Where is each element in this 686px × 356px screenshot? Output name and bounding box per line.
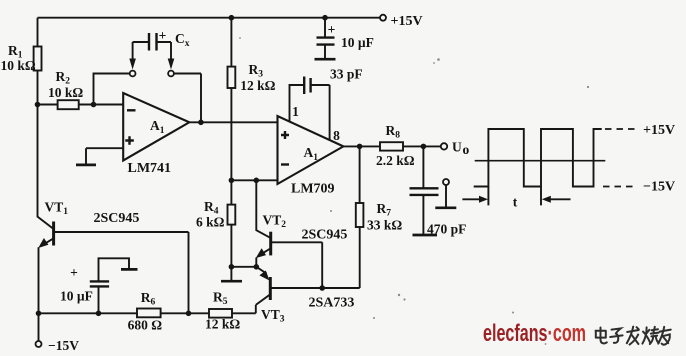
svg-text:10 µF: 10 µF (60, 289, 93, 304)
node B (inverting input junction) (91, 102, 97, 108)
wire inverting input op-amp U1 (94, 104, 124, 106)
svg-text:+: + (159, 28, 167, 43)
waveform level labels (643, 123, 675, 195)
svg-text:10 µF: 10 µF (341, 35, 374, 50)
wire +15V top rail (38, 17, 381, 19)
svg-text:+15V: +15V (643, 123, 675, 138)
svg-text:U: U (452, 140, 462, 155)
resistor R8 (376, 123, 441, 168)
char fa (627, 327, 639, 345)
svg-text:33 pF: 33 pF (330, 67, 363, 82)
svg-text:680 Ω: 680 Ω (128, 318, 163, 333)
capacitor C4 10uF (60, 258, 129, 313)
node A (R1/R2 junction) (35, 102, 41, 108)
char you (658, 327, 671, 345)
svg-text:o: o (463, 142, 470, 157)
terminal -15V (36, 338, 80, 353)
node F (-15V rail junction) (36, 311, 42, 317)
wire bottom rail left (39, 311, 138, 317)
svg-text:8: 8 (333, 128, 340, 143)
svg-text:6 kΩ: 6 kΩ (196, 215, 225, 230)
waveform axis (475, 160, 606, 162)
svg-text:+: + (328, 22, 336, 37)
char shao (642, 327, 659, 344)
capacitor C2 33pF (290, 67, 363, 141)
transistor Q2 VT2 2SC945 (256, 180, 348, 266)
svg-text:1: 1 (292, 104, 299, 119)
capacitor C3 470pF (410, 146, 467, 236)
wire op-amp U2 output node (343, 144, 380, 150)
transistor Q3 VT3 2SA733 (256, 267, 355, 325)
svg-text:12 kΩ: 12 kΩ (205, 317, 240, 332)
wire Cx right socket to output (174, 74, 201, 123)
node E (output / 470pF tap) (421, 144, 427, 150)
terminal Uo (441, 140, 470, 158)
ground (op-amp U1 + input) (76, 164, 96, 167)
wire lower input op-amp U2 (229, 178, 278, 184)
svg-text:2.2 kΩ: 2.2 kΩ (376, 153, 415, 168)
svg-text:33 kΩ: 33 kΩ (367, 218, 402, 233)
waveform dimension arrows t (462, 195, 570, 210)
waveform square-wave trace (474, 129, 602, 187)
svg-text:2SA733: 2SA733 (309, 296, 355, 311)
wire R4 node to emitter node (231, 266, 256, 268)
op-amp U2 LM709 (278, 104, 344, 197)
resistor R2 (38, 69, 124, 109)
ground (10uF tap) (121, 268, 138, 271)
resistor R7 (356, 146, 403, 232)
wire VT1 base (54, 232, 189, 313)
wire non-inverting input op-amp U1 (86, 148, 123, 164)
svg-text:+: + (70, 265, 78, 280)
node D (VT2/VT3 emitter node) (253, 264, 259, 270)
scan specks (239, 37, 589, 345)
svg-text:LM741: LM741 (128, 161, 172, 176)
svg-text:12 kΩ: 12 kΩ (240, 78, 275, 93)
svg-text:10 kΩ: 10 kΩ (48, 85, 83, 100)
capacitor 10uF bypass (317, 15, 374, 59)
ground (10uF bypass) (315, 58, 336, 61)
svg-text:−15V: −15V (48, 338, 79, 353)
svg-text:+15V: +15V (391, 14, 423, 29)
char dian (596, 328, 607, 344)
probe terminal (ground test point) (435, 179, 456, 208)
logo elecfans.com (483, 320, 586, 347)
wire VT2 base (271, 242, 323, 287)
svg-text:2SC945: 2SC945 (302, 228, 348, 243)
ground (below R4) (221, 280, 242, 283)
char zi (610, 328, 622, 342)
logo chinese characters (drawn strokes) (596, 327, 671, 345)
ground (470pF bottom) (413, 234, 438, 237)
wire op-amp U1 output to op-amp U2 (189, 120, 277, 126)
wire riser to Cx left socket (94, 74, 130, 105)
capacitor Cx (129, 28, 189, 77)
resistor R3 (228, 15, 276, 180)
svg-text:elecfans·com: elecfans·com (483, 320, 586, 347)
node G (VT1 base tap) (186, 311, 192, 317)
wire VT3 base / R7 bottom (270, 227, 359, 291)
waveform dashed level lines (603, 129, 637, 187)
resistor R5 (205, 290, 256, 332)
waveform period ticks (488, 187, 541, 206)
resistor R1 (1, 18, 42, 105)
svg-text:LM709: LM709 (291, 182, 335, 197)
resistor R4 (196, 180, 235, 266)
op-amp U1 LM741 (123, 93, 189, 176)
svg-text:10 kΩ: 10 kΩ (1, 58, 36, 73)
resistor R6 (128, 290, 209, 333)
svg-text:2SC945: 2SC945 (94, 211, 140, 226)
node C (R4 bottom / ground tap) (229, 264, 235, 281)
terminal +15V (380, 14, 423, 29)
transistor Q1 VT1 2SC945 (38, 105, 140, 342)
svg-text:−15V: −15V (643, 179, 675, 194)
svg-text:t: t (513, 195, 518, 210)
